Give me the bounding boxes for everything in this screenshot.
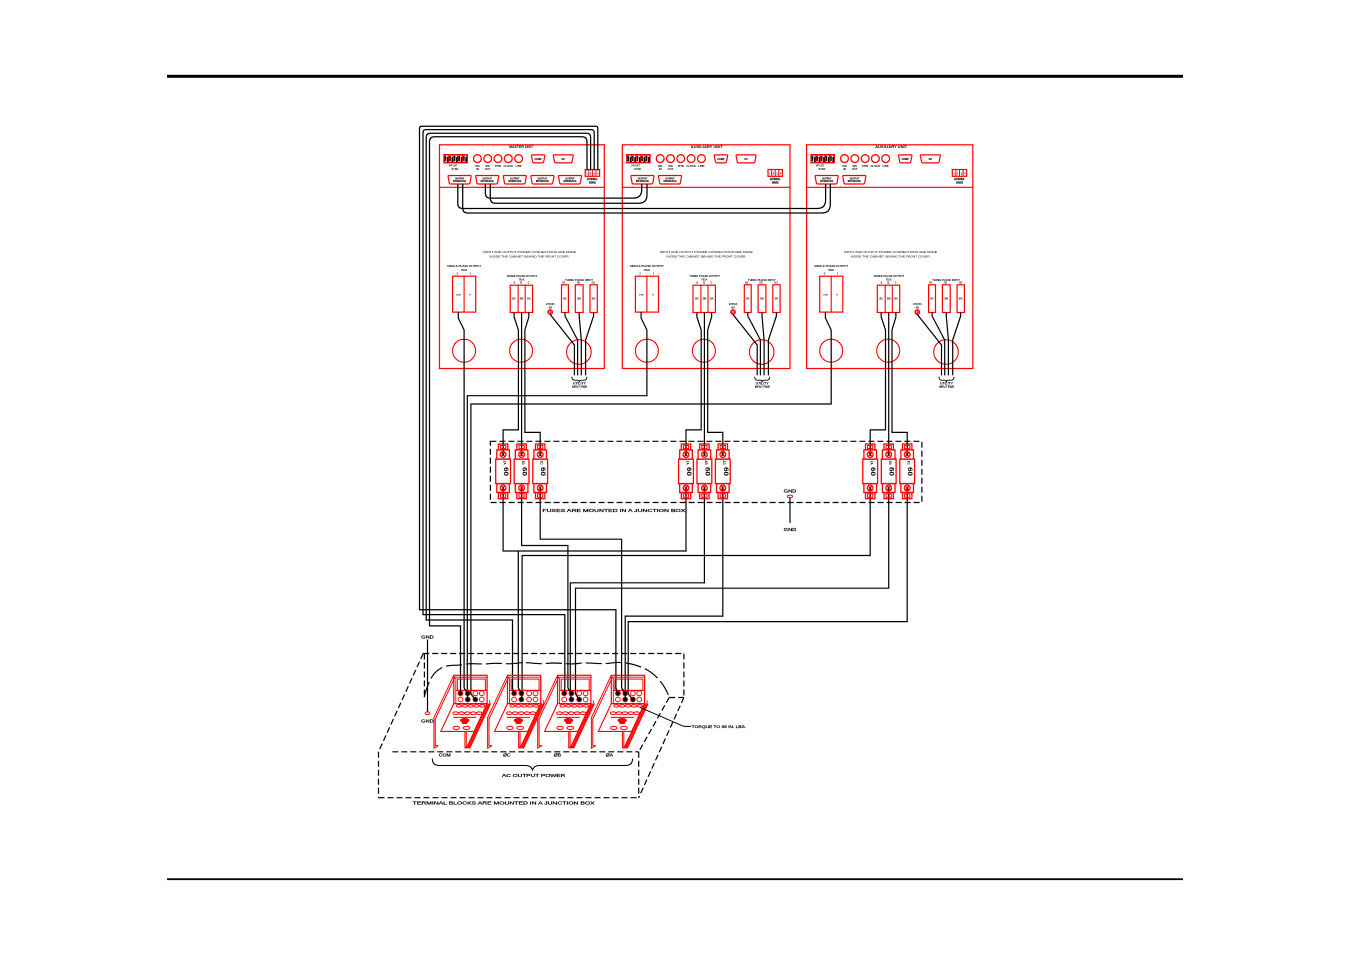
svg-text:60: 60 — [685, 467, 692, 476]
svg-text:A: A — [513, 280, 515, 284]
svg-text:LINK: LINK — [883, 164, 889, 168]
svg-text:3A: 3A — [870, 461, 874, 466]
wire: external sense lead 3 from U1 TB-SENSE to output terminal block 3 — [423, 130, 594, 688]
svg-text:ØB: ØB — [577, 298, 581, 301]
svg-text:1C: 1C — [540, 461, 544, 466]
svg-text:GND: GND — [421, 718, 434, 723]
svg-text:AUXILIARY UNIT: AUXILIARY UNIT — [691, 145, 724, 149]
brace and label UTILITY INPUT of U1 — [572, 377, 588, 389]
wire: three phase input and bypass leads of U3 — [917, 313, 960, 376]
unit U1 title — [509, 145, 534, 149]
connector P5 OUTPUT INTERFACE of U1 — [558, 176, 581, 185]
conduit hub (single phase) of U3 — [820, 339, 843, 362]
svg-text:ØA: ØA — [606, 752, 614, 757]
wire: U1 three phase output to fuses F1A-F1C — [503, 369, 540, 445]
wire: three phase input and bypass leads of U2 — [733, 313, 776, 376]
svg-text:C: C — [528, 280, 530, 284]
svg-text:INTERFACE: INTERFACE — [820, 180, 833, 183]
svg-text:CLOCK: CLOCK — [504, 164, 514, 168]
svg-text:H2: H2 — [944, 282, 948, 285]
bypass terminal of U3 — [913, 302, 922, 314]
svg-text:IN: IN — [476, 167, 479, 171]
connector P2 OUTPUT INTERFACE of U1 — [476, 176, 499, 185]
wire: three phase output bundle of U2 — [697, 313, 712, 369]
svg-text:1B: 1B — [521, 461, 525, 466]
wire: single phase output of U2 — [641, 312, 647, 368]
wire: parallel bus cable pair U1 P1 to U3 P1 — [458, 184, 831, 213]
connector J6 COMM of U2 — [714, 155, 727, 163]
svg-text:2C: 2C — [722, 461, 726, 466]
svg-text:COMP: COMP — [535, 158, 543, 161]
terminal block TB-SENSE (EXTERNAL SENSE) of U1 — [585, 170, 599, 185]
svg-text:ØB: ØB — [760, 298, 764, 301]
svg-text:60: 60 — [539, 467, 546, 476]
terminal block TB1A THREE PHASE OUTPUT of U3 — [874, 274, 905, 313]
wire: phase B net (F1B, F2B, F3B) to block TB2-ØB — [522, 499, 889, 694]
wire: parallel bus cable pair U1 P2 to U2 P1 — [485, 184, 647, 203]
svg-text:ØA: ØA — [527, 298, 531, 301]
svg-text:60: 60 — [722, 467, 729, 476]
svg-text:INPUT PWR: INPUT PWR — [755, 385, 771, 389]
svg-text:60: 60 — [888, 467, 895, 476]
terminal block TB1A THREE PHASE OUTPUT of U2 — [689, 274, 720, 313]
svg-text:2: 2 — [773, 172, 775, 176]
junction box (terminal blocks) dashed 3D outline — [379, 654, 684, 798]
connector P2 OUTPUT INTERFACE of U3 — [843, 176, 866, 185]
svg-text:H3: H3 — [592, 282, 596, 285]
svg-text:H: H — [836, 295, 838, 297]
svg-text:PITB: PITB — [678, 164, 684, 168]
label TERMINAL BLOCKS ARE MOUNTED IN A JUNCTION BOX — [413, 800, 595, 805]
note text inside U1 — [483, 250, 576, 259]
svg-text:SYNC: SYNC — [452, 167, 460, 171]
svg-text:I/O: I/O — [562, 158, 565, 161]
terminal block TB1A THREE PHASE OUTPUT of U1 — [507, 274, 538, 313]
svg-text:Ø2: Ø2 — [549, 305, 553, 309]
svg-text:I/O: I/O — [929, 158, 932, 161]
svg-text:PITB: PITB — [862, 164, 868, 168]
unit U2 AUXILIARY UNIT enclosure — [622, 145, 790, 369]
svg-text:INTERFACE: INTERFACE — [636, 180, 649, 183]
ground lug GND in fuse junction box — [784, 489, 797, 533]
svg-text:THREE PHASE OUTPUT: THREE PHASE OUTPUT — [874, 274, 905, 278]
svg-text:2: 2 — [639, 272, 641, 276]
connector J7 I/O of U1 — [553, 155, 573, 163]
labels COM ØC ØB ØA — [439, 752, 614, 757]
connector jack J5 LINK of U3 — [882, 155, 890, 168]
svg-text:ØA: ØA — [592, 298, 596, 301]
unit U3 AUXILIARY UNIT enclosure — [807, 145, 973, 369]
svg-text:INTERFACE: INTERFACE — [663, 180, 676, 183]
svg-text:ØC: ØC — [879, 298, 883, 301]
terminal THREE PHASE INPUT of U1 — [562, 278, 598, 313]
wire: external sense lead 1 from U1 TB-SENSE to output terminal block 1 — [430, 137, 588, 688]
svg-text:A: A — [880, 280, 882, 284]
fuse F2A — [679, 444, 694, 499]
connector P1 OUTPUT INTERFACE of U3 — [815, 176, 838, 185]
terminal THREE PHASE INPUT of U2 — [744, 278, 780, 313]
svg-text:3: 3 — [961, 172, 963, 176]
connector jack J3 PITB of U3 — [861, 155, 869, 168]
torn-open edge (freeform) of junction box — [424, 662, 669, 697]
fuse F3A — [863, 444, 878, 499]
svg-text:GND: GND — [784, 489, 797, 494]
svg-text:IN: IN — [659, 167, 662, 171]
svg-text:ØB: ØB — [554, 752, 561, 757]
svg-text:SYNC: SYNC — [634, 167, 642, 171]
svg-text:1: 1 — [653, 272, 655, 276]
svg-text:INSIDE THE CABINET, BEHIND THE: INSIDE THE CABINET, BEHIND THE FRONT COV… — [851, 255, 931, 259]
wire: single phase output of U1 — [458, 312, 464, 368]
svg-text:INTERFACE: INTERFACE — [848, 180, 861, 183]
svg-text:2: 2 — [457, 272, 459, 276]
svg-text:3B: 3B — [888, 461, 892, 466]
border rule bottom — [167, 878, 1183, 880]
svg-text:ØA: ØA — [775, 298, 779, 301]
svg-text:LINK: LINK — [515, 164, 521, 168]
svg-text:H2: H2 — [577, 282, 581, 285]
svg-text:INPUT AND OUTPUT POWER CONNECT: INPUT AND OUTPUT POWER CONNECTIONS ARE M… — [483, 250, 576, 254]
svg-text:COMP: COMP — [717, 158, 725, 161]
svg-text:H3: H3 — [959, 282, 963, 285]
fuse F2C — [715, 444, 730, 499]
svg-text:B: B — [887, 280, 889, 284]
svg-text:2: 2 — [957, 172, 959, 176]
svg-text:INPUT AND OUTPUT POWER CONNECT: INPUT AND OUTPUT POWER CONNECTIONS ARE M… — [660, 250, 753, 254]
connector jack J2 SIG OUT of U2 — [667, 155, 675, 171]
callout TORQUE TO 35 IN. LBS. — [640, 707, 746, 729]
connector jack J4 CLOCK of U3 — [871, 155, 881, 168]
svg-text:INTERFACE: INTERFACE — [563, 180, 576, 183]
fuse F1A — [496, 444, 511, 499]
svg-text:TB1B: TB1B — [828, 268, 834, 272]
wire: phase C net (F1A, F2A, F3A) to block TB2-ØC — [503, 499, 870, 694]
svg-text:1: 1 — [769, 172, 771, 176]
svg-text:INPUT PWR: INPUT PWR — [572, 385, 588, 389]
svg-text:H: H — [469, 295, 471, 297]
connector J7 I/O of U3 — [920, 155, 940, 163]
brace AC OUTPUT POWER — [432, 759, 632, 778]
svg-text:THREE PHASE OUTPUT: THREE PHASE OUTPUT — [507, 274, 538, 278]
svg-text:INSIDE THE CABINET, BEHIND THE: INSIDE THE CABINET, BEHIND THE FRONT COV… — [490, 255, 570, 259]
svg-text:ØC: ØC — [746, 298, 750, 301]
svg-text:INTERFACE: INTERFACE — [508, 180, 521, 183]
connector jack J1 SIG IN of U3 — [841, 155, 849, 171]
fuse F1C — [533, 444, 548, 499]
svg-text:CLOCK: CLOCK — [686, 164, 696, 168]
connector jack J5 LINK of U2 — [698, 155, 706, 168]
svg-text:OUT: OUT — [852, 167, 858, 171]
svg-text:4: 4 — [964, 172, 966, 176]
svg-text:ØC: ØC — [563, 298, 567, 301]
svg-text:THREE PHASE OUTPUT: THREE PHASE OUTPUT — [689, 274, 720, 278]
svg-text:INTERFACE: INTERFACE — [536, 180, 549, 183]
svg-text:H: H — [652, 295, 654, 297]
unit U1 MASTER UNIT enclosure — [440, 145, 605, 369]
svg-text:COM: COM — [823, 295, 828, 297]
terminal block TB-SENSE (EXTERNAL SENSE) of U2 — [768, 170, 782, 185]
wire: three phase input and bypass leads of U1 — [550, 313, 593, 376]
fuse F2B — [697, 444, 712, 499]
svg-text:2A: 2A — [685, 461, 689, 466]
svg-text:SYNC: SYNC — [819, 167, 827, 171]
conduit hub (single phase) of U1 — [453, 339, 476, 362]
svg-text:4: 4 — [597, 172, 599, 176]
conduit hub (single phase) of U2 — [635, 339, 658, 362]
unit U2 title — [691, 145, 724, 149]
connector jack J2 SIG OUT of U1 — [484, 155, 492, 171]
ground wire and lug GND at output junction box — [421, 634, 434, 723]
DIP switch S1 of U1 — [444, 155, 467, 171]
svg-text:3: 3 — [593, 172, 595, 176]
label FUSES ARE MOUNTED IN A JUNCTION BOX — [542, 508, 685, 513]
svg-text:PITB: PITB — [495, 164, 501, 168]
svg-text:AUXILIARY UNIT: AUXILIARY UNIT — [875, 145, 908, 149]
svg-text:TB1B: TB1B — [644, 268, 650, 272]
svg-text:H1: H1 — [929, 282, 933, 285]
svg-text:ØA: ØA — [894, 298, 898, 301]
terminal block TB2-ØA — [591, 675, 648, 748]
connector P3 OUTPUT INTERFACE of U1 — [503, 176, 526, 185]
conduit hub (three phase input) of U2 — [749, 340, 774, 365]
border rule top — [167, 75, 1183, 78]
DIP switch S1 of U2 — [627, 155, 650, 171]
connector jack J3 PITB of U1 — [494, 155, 502, 168]
svg-text:FUSES ARE MOUNTED IN A JUNCTIO: FUSES ARE MOUNTED IN A JUNCTION BOX — [542, 508, 685, 513]
svg-text:Ø2: Ø2 — [731, 305, 735, 309]
fuse F3C — [900, 444, 915, 499]
svg-text:ØA: ØA — [710, 298, 714, 301]
svg-text:INTERFACE: INTERFACE — [453, 180, 466, 183]
terminal THREE PHASE INPUT of U3 — [929, 278, 965, 313]
svg-text:C: C — [895, 280, 897, 284]
connector jack J4 CLOCK of U2 — [686, 155, 696, 168]
svg-text:60: 60 — [703, 467, 710, 476]
connector jack J1 SIG IN of U2 — [656, 155, 664, 171]
conduit hub (three phase output) of U1 — [510, 339, 533, 362]
svg-text:INTERFACE: INTERFACE — [481, 180, 494, 183]
svg-text:ØC: ØC — [930, 298, 934, 301]
svg-text:2: 2 — [590, 172, 592, 176]
svg-text:1: 1 — [586, 172, 588, 176]
svg-text:CLOCK: CLOCK — [871, 164, 881, 168]
conduit hub (three phase input) of U3 — [934, 340, 959, 365]
svg-text:3C: 3C — [907, 461, 911, 466]
svg-text:TB1B: TB1B — [461, 268, 467, 272]
terminal block TB-SENSE (EXTERNAL SENSE) of U3 — [952, 170, 966, 185]
wire: external sense lead 4 from U1 TB-SENSE to output terminal block 4 — [420, 126, 616, 688]
conduit hub (three phase input) of U1 — [567, 340, 592, 365]
connector P2 OUTPUT INTERFACE of U2 — [658, 176, 681, 185]
wire: COM net from U1/U2/U3 single phase outputs to block TB2-COM — [464, 369, 831, 695]
svg-text:3: 3 — [776, 172, 778, 176]
wire: external sense lead 2 from U1 TB-SENSE to output terminal block 2 — [426, 133, 590, 688]
svg-text:H3: H3 — [774, 282, 778, 285]
note text inside U3 — [844, 250, 937, 259]
svg-text:ØB: ØB — [520, 298, 524, 301]
note text inside U2 — [660, 250, 753, 259]
svg-text:COM: COM — [639, 295, 644, 297]
svg-text:ØA: ØA — [959, 298, 963, 301]
wire: single phase output of U3 — [825, 312, 831, 368]
bypass terminal of U1 — [546, 302, 555, 314]
svg-text:1: 1 — [953, 172, 955, 176]
svg-text:SINGLE PHASE OUTPUT: SINGLE PHASE OUTPUT — [630, 264, 664, 268]
terminal block TB2-ØC — [488, 675, 545, 748]
svg-text:I/O: I/O — [744, 158, 747, 161]
svg-text:2B: 2B — [704, 461, 708, 466]
wire terminations on terminal blocks — [458, 688, 635, 702]
svg-text:OUT: OUT — [485, 167, 491, 171]
svg-text:INSIDE THE CABINET, BEHIND THE: INSIDE THE CABINET, BEHIND THE FRONT COV… — [666, 255, 746, 259]
connector jack J1 SIG IN of U1 — [474, 155, 482, 171]
terminal block TB2-ØB — [538, 675, 595, 748]
svg-text:60: 60 — [906, 467, 913, 476]
svg-text:60: 60 — [502, 467, 509, 476]
junction box (fuses) dashed outline — [490, 441, 922, 502]
connector P4 OUTPUT INTERFACE of U1 — [531, 176, 554, 185]
svg-text:GND: GND — [421, 634, 434, 639]
conduit hub (three phase output) of U3 — [877, 339, 900, 362]
svg-text:ØC: ØC — [503, 752, 511, 757]
svg-text:ØB: ØB — [945, 298, 949, 301]
DIP switch S1 of U3 — [811, 155, 834, 171]
unit U3 title — [875, 145, 908, 149]
svg-text:SENSE: SENSE — [589, 182, 596, 185]
svg-text:TORQUE TO 35 IN. LBS.: TORQUE TO 35 IN. LBS. — [692, 725, 747, 729]
wire: three phase output bundle of U3 — [881, 313, 896, 369]
svg-text:INPUT PWR: INPUT PWR — [939, 385, 955, 389]
brace and label UTILITY INPUT of U3 — [939, 377, 955, 389]
connector jack J4 CLOCK of U1 — [504, 155, 514, 168]
connector jack J3 PITB of U2 — [677, 155, 685, 168]
svg-text:COM: COM — [456, 295, 461, 297]
svg-text:A: A — [696, 280, 698, 284]
wire: U2 three phase output to fuses F2A-F2C — [686, 369, 723, 445]
wire: three phase output bundle of U1 — [514, 313, 529, 369]
brace and label UTILITY INPUT of U2 — [755, 377, 771, 389]
svg-text:ØC: ØC — [695, 298, 699, 301]
fuse F1B — [514, 444, 529, 499]
svg-text:1A: 1A — [503, 461, 507, 466]
connector J7 I/O of U2 — [736, 155, 756, 163]
svg-text:H1: H1 — [745, 282, 749, 285]
terminal block TB1B SINGLE PHASE OUTPUT of U3 — [814, 264, 848, 312]
svg-text:AC OUTPUT POWER: AC OUTPUT POWER — [502, 773, 566, 778]
svg-text:4: 4 — [780, 172, 782, 176]
connector jack J2 SIG OUT of U3 — [851, 155, 859, 171]
fuse F3B — [881, 444, 896, 499]
connector P1 OUTPUT INTERFACE of U2 — [631, 176, 654, 185]
svg-text:B: B — [703, 280, 705, 284]
conduit hub (three phase output) of U2 — [692, 339, 715, 362]
svg-text:2: 2 — [824, 272, 826, 276]
svg-text:SINGLE PHASE OUTPUT: SINGLE PHASE OUTPUT — [814, 264, 848, 268]
svg-text:H2: H2 — [759, 282, 763, 285]
svg-text:B: B — [520, 280, 522, 284]
svg-text:SENSE: SENSE — [956, 182, 963, 185]
svg-text:LINK: LINK — [698, 164, 704, 168]
svg-text:1: 1 — [470, 272, 472, 276]
svg-text:COMP: COMP — [902, 158, 910, 161]
svg-text:INPUT AND OUTPUT POWER CONNECT: INPUT AND OUTPUT POWER CONNECTIONS ARE M… — [844, 250, 937, 254]
svg-text:GND: GND — [784, 527, 797, 532]
svg-text:SINGLE PHASE OUTPUT: SINGLE PHASE OUTPUT — [447, 264, 481, 268]
svg-text:COM: COM — [439, 752, 451, 757]
bypass terminal of U2 — [729, 302, 738, 314]
svg-text:60: 60 — [521, 467, 528, 476]
wire: phase A net (F1C, F2C, F3C) to block TB2-ØA — [540, 499, 907, 694]
torn-open boundary dashed segment — [423, 654, 425, 697]
terminal block TB1B SINGLE PHASE OUTPUT of U2 — [630, 264, 664, 312]
wire: U3 three phase output to fuses F3A-F3C — [870, 369, 907, 445]
svg-text:ØB: ØB — [703, 298, 707, 301]
svg-text:TERMINAL BLOCKS ARE MOUNTED IN: TERMINAL BLOCKS ARE MOUNTED IN A JUNCTIO… — [413, 800, 595, 805]
svg-text:IN: IN — [843, 167, 846, 171]
terminal block TB2-COM — [434, 675, 491, 748]
svg-text:1: 1 — [837, 272, 839, 276]
svg-text:ØC: ØC — [512, 298, 516, 301]
connector P1 OUTPUT INTERFACE of U1 — [448, 176, 471, 185]
svg-text:ØB: ØB — [887, 298, 891, 301]
connector jack J5 LINK of U1 — [515, 155, 523, 168]
svg-text:60: 60 — [869, 467, 876, 476]
svg-text:OUT: OUT — [668, 167, 674, 171]
svg-text:Ø2: Ø2 — [916, 305, 920, 309]
connector J6 COMM of U3 — [899, 155, 912, 163]
connector J6 COMM of U1 — [531, 155, 544, 163]
svg-text:C: C — [710, 280, 712, 284]
svg-text:H1: H1 — [562, 282, 566, 285]
svg-text:SENSE: SENSE — [772, 182, 779, 185]
terminal block TB1B SINGLE PHASE OUTPUT of U1 — [447, 264, 481, 312]
svg-text:MASTER UNIT: MASTER UNIT — [509, 145, 534, 149]
